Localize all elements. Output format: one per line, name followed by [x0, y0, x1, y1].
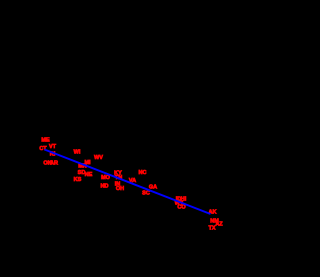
svg-text:SC: SC: [142, 191, 150, 197]
svg-text:CO: CO: [177, 205, 186, 211]
svg-text:NC: NC: [139, 170, 147, 176]
svg-text:WI: WI: [74, 150, 81, 156]
regression line: [45, 150, 211, 215]
svg-text:MO: MO: [101, 175, 111, 181]
svg-text:ME: ME: [41, 138, 50, 144]
svg-text:OH: OH: [116, 186, 124, 192]
svg-text:NE: NE: [85, 172, 93, 178]
svg-text:VT: VT: [49, 144, 57, 150]
svg-text:TX: TX: [208, 226, 215, 232]
svg-text:KS: KS: [74, 177, 82, 183]
svg-text:AR: AR: [50, 161, 58, 167]
svg-text:AZ: AZ: [215, 222, 223, 228]
svg-text:WV: WV: [94, 155, 103, 161]
svg-text:ND: ND: [101, 184, 109, 190]
